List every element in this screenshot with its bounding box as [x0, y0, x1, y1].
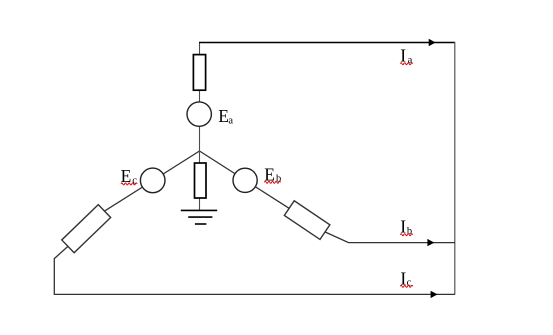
wire: neutral node to phase-c branch (down-left through EMF Ec to impedance)	[105, 151, 200, 211]
spellcheck squiggle under Ia	[400, 63, 413, 65]
wire: phase-c lower segment from impedance to left corner, down and along bottom (Ic)	[54, 246, 455, 294]
spellcheck squiggle under Ic	[400, 285, 413, 287]
impedance rectangle, phase a (top)	[193, 55, 205, 91]
EMF source circle Ea	[187, 102, 211, 126]
impedance rectangle, neutral grounding (center)	[195, 163, 207, 198]
wire: right vertical bus line	[454, 42, 456, 295]
EMF source circle Eb	[233, 168, 257, 192]
svg-text:a: a	[228, 115, 233, 126]
arrowhead for current Ic	[431, 291, 438, 298]
ground symbol (earth, three bars)	[181, 210, 217, 224]
wire: top horizontal line Ia from phase-a branch to right bus corner	[199, 42, 455, 44]
label Eb	[264, 165, 281, 185]
spellcheck squiggle under Ib	[400, 234, 413, 236]
label Ib	[400, 217, 412, 237]
wire: phase-a vertical from top corner down to neutral node	[199, 43, 201, 152]
label Ia	[400, 46, 412, 66]
impedance rectangle, phase b (right, rotated 34deg)	[284, 201, 330, 240]
impedance rectangle, phase c (left, rotated 45deg)	[62, 205, 111, 253]
arrowhead for current Ib	[427, 239, 434, 246]
arrowhead for current Ia	[429, 39, 436, 46]
label Ec	[121, 166, 138, 186]
svg-text:a: a	[408, 55, 413, 66]
label Ic	[400, 268, 411, 288]
spellcheck squiggle under Ec	[121, 183, 137, 185]
EMF source circle Ec	[140, 168, 165, 193]
label Ea	[218, 106, 233, 126]
wire: phase-b lower segment from impedance to horizontal Ib line	[325, 232, 455, 243]
svg-text:E: E	[218, 106, 229, 126]
wire: neutral node to phase-b branch (down-right through EMF Eb to impedance)	[200, 151, 290, 208]
spellcheck squiggle under Eb	[264, 181, 280, 183]
wire: neutral node down to grounding impedance and earth	[199, 151, 201, 210]
